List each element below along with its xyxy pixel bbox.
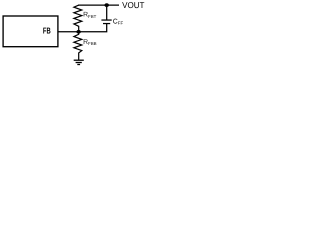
resistor RFBB bbox=[74, 32, 82, 60]
svg-text:RFBB: RFBB bbox=[83, 39, 97, 46]
label RFBB bbox=[83, 39, 97, 46]
wire FB node to CFF branch bbox=[79, 24, 107, 32]
svg-text:RFBT: RFBT bbox=[83, 12, 97, 19]
pin label FB bbox=[43, 25, 51, 35]
resistor RFBT bbox=[74, 5, 82, 30]
wire FB pin to divider node bbox=[58, 31, 79, 33]
label VOUT bbox=[122, 0, 144, 10]
capacitor CFF bbox=[101, 5, 111, 23]
node VOUT junction dot bbox=[104, 3, 109, 7]
svg-text:VOUT: VOUT bbox=[122, 0, 144, 10]
ground bbox=[74, 60, 84, 64]
svg-text:FB: FB bbox=[43, 25, 51, 35]
IC box U1 bbox=[3, 16, 58, 47]
node FB junction dot bbox=[76, 30, 81, 34]
label RFBT bbox=[83, 12, 97, 19]
svg-text:CFF: CFF bbox=[113, 18, 124, 25]
label CFF bbox=[113, 18, 124, 25]
wire VOUT rail bbox=[78, 4, 119, 6]
